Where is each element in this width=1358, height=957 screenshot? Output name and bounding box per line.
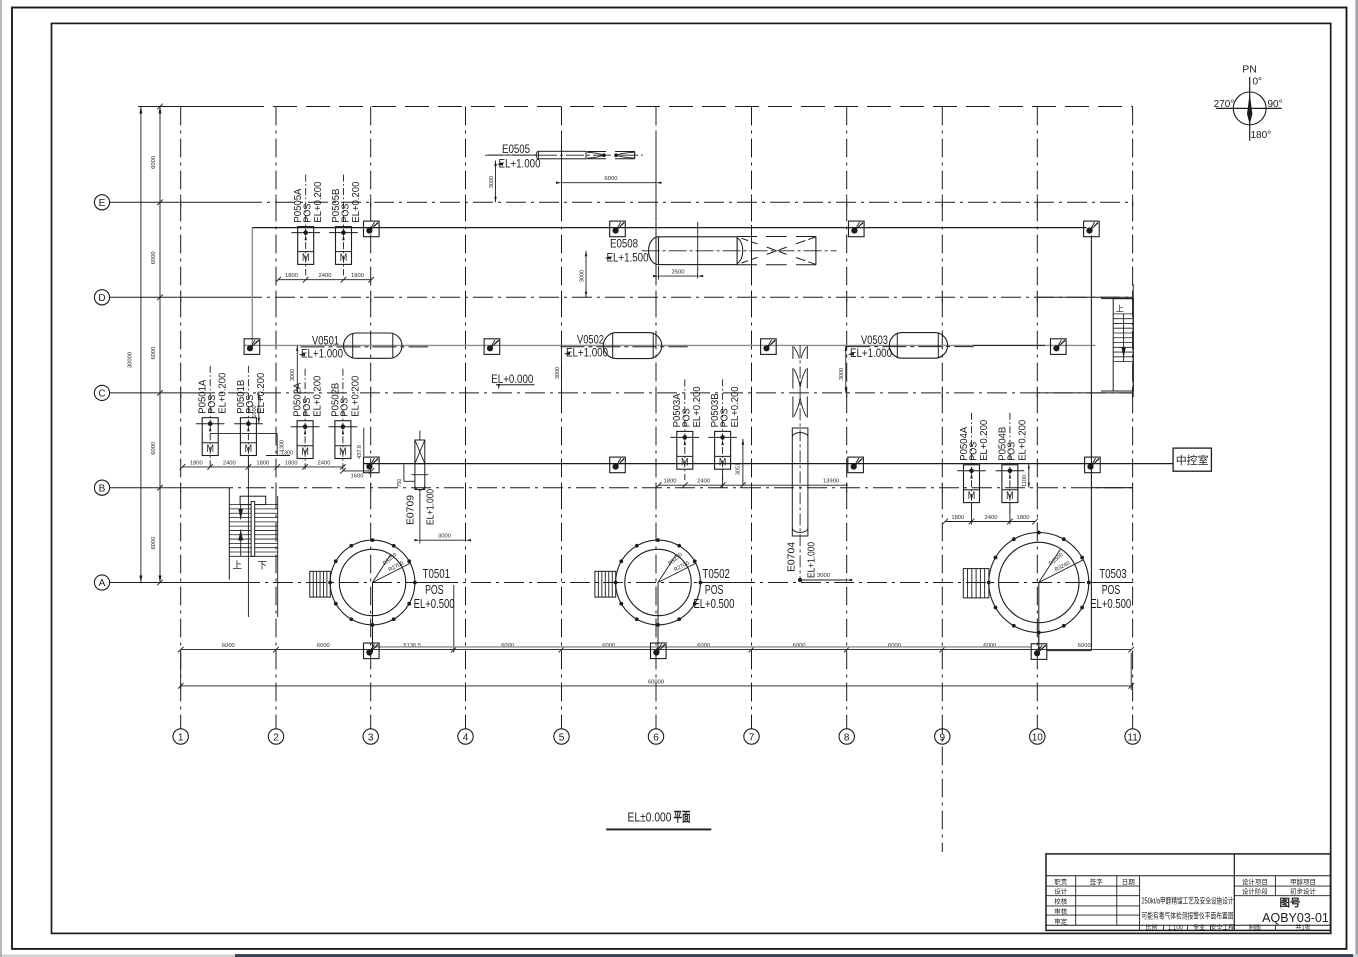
- svg-text:M: M: [339, 446, 347, 458]
- row bubble C: [94, 385, 109, 400]
- svg-text:POS: POS: [425, 583, 444, 597]
- svg-text:EL+0.200: EL+0.200: [217, 373, 229, 414]
- svg-text:11: 11: [1127, 732, 1138, 743]
- pump P0501A: [196, 366, 229, 467]
- svg-text:6000: 6000: [222, 643, 235, 649]
- svg-text:M: M: [206, 443, 214, 455]
- pump P0503B: [708, 379, 741, 480]
- title block: [1046, 854, 1331, 931]
- vessel drop dimension 3000 at V0502: [555, 345, 562, 393]
- gas detector on upper rack x=617: [610, 221, 626, 237]
- svg-text:EL+0.200: EL+0.200: [729, 386, 741, 427]
- svg-text:10: 10: [1032, 732, 1044, 743]
- row B wall segment right: [1091, 487, 1133, 489]
- axis bubble 7: [744, 729, 759, 744]
- T0503 centre line: [1038, 583, 1040, 653]
- svg-text:0°: 0°: [1253, 77, 1263, 88]
- axis bubble 1: [173, 729, 188, 744]
- axis bubble 6: [648, 729, 663, 744]
- floor elevation marker EL+0.000: [491, 374, 534, 390]
- svg-text:1:100: 1:100: [1168, 925, 1184, 931]
- svg-text:可能有毒气体检测报警仪平面布置图: 可能有毒气体检测报警仪平面布置图: [1142, 911, 1234, 921]
- svg-text:E0709: E0709: [405, 495, 417, 525]
- pump P0501B centre line down through stairs: [247, 456, 249, 618]
- svg-text:POS: POS: [1102, 583, 1121, 597]
- axis bubble 5: [554, 729, 569, 744]
- svg-text:EL+0.200: EL+0.200: [312, 181, 324, 222]
- svg-text:V0503: V0503: [861, 335, 888, 347]
- svg-text:2400: 2400: [985, 515, 998, 521]
- svg-text:2400: 2400: [223, 460, 236, 466]
- grid row A line: [109, 582, 240, 584]
- dimension 3000 E0505 to row E: [489, 161, 497, 203]
- svg-text:6000: 6000: [151, 537, 157, 550]
- exchanger E0505: [485, 144, 643, 170]
- axis 6 solid segment at E0508: [655, 222, 657, 281]
- svg-text:EL+1.000: EL+1.000: [566, 348, 608, 360]
- pump P0503A: [671, 379, 704, 480]
- grid axis 8 line: [846, 107, 848, 729]
- dimension line pumps P0505: [275, 273, 374, 282]
- svg-text:1800: 1800: [285, 273, 298, 279]
- pump P0505A: [291, 175, 324, 276]
- svg-text:3000: 3000: [839, 368, 845, 380]
- svg-text:EL+1.000: EL+1.000: [424, 489, 436, 525]
- left dimension chain inner (6000 steps): [151, 104, 163, 586]
- svg-text:750: 750: [397, 479, 403, 488]
- svg-text:3: 3: [368, 732, 374, 743]
- tank T0503: [987, 531, 1131, 653]
- grid axis 2 line: [275, 107, 277, 729]
- dimension 750 E0709: [397, 465, 415, 488]
- svg-text:90°: 90°: [1268, 99, 1283, 110]
- svg-text:EL+0.500: EL+0.500: [414, 597, 455, 611]
- svg-text:270°: 270°: [1214, 99, 1235, 110]
- gas detector on lower rack x=371: [364, 457, 380, 473]
- svg-text:T0503: T0503: [1099, 567, 1127, 581]
- dimension 3000 E0704 to axis8: [798, 573, 852, 582]
- svg-text:M: M: [681, 457, 689, 469]
- svg-text:3000: 3000: [579, 270, 585, 282]
- saddle line E0508: [697, 222, 699, 279]
- svg-text:2400: 2400: [697, 479, 710, 485]
- dimension line pumps P0504: [942, 502, 1038, 524]
- bottom dimension line total 60000: [178, 653, 1134, 690]
- svg-text:设计项目: 设计项目: [1242, 877, 1268, 886]
- window edge shading left: [0, 0, 2, 957]
- window edge shading bottom track: [0, 954, 1358, 957]
- svg-text:30000: 30000: [128, 352, 134, 368]
- grid axis 4 line: [465, 107, 467, 729]
- dimension 2500 E0508: [653, 266, 703, 280]
- svg-text:审定: 审定: [1054, 916, 1068, 925]
- svg-text:EL+0.200: EL+0.200: [350, 181, 362, 222]
- svg-text:EL+0.500: EL+0.500: [1090, 597, 1131, 611]
- axis bubble 4: [458, 729, 473, 744]
- axis bubble 11: [1125, 729, 1140, 744]
- T0502 centre line: [657, 583, 659, 653]
- svg-text:EL+1.000: EL+1.000: [850, 348, 892, 360]
- svg-text:6000: 6000: [1078, 643, 1091, 649]
- window edge shading right: [1355, 0, 1358, 957]
- svg-text:M: M: [302, 252, 310, 264]
- svg-text:180°: 180°: [1251, 130, 1272, 141]
- tank access ladder: [595, 571, 616, 597]
- extension line for 5136.5: [453, 585, 455, 653]
- svg-text:下: 下: [258, 561, 268, 572]
- svg-text:校核: 校核: [1054, 897, 1068, 906]
- svg-text:1800: 1800: [351, 273, 364, 279]
- dimension 1100 P0504: [1022, 464, 1030, 488]
- svg-text:初步设计: 初步设计: [1290, 887, 1317, 896]
- row A solid segment at T0502 label: [700, 582, 745, 584]
- svg-text:EL+0.200: EL+0.200: [349, 376, 361, 417]
- svg-text:1: 1: [178, 732, 184, 743]
- svg-text:1800: 1800: [285, 460, 298, 466]
- pump P0504B: [996, 413, 1029, 514]
- vessel drop dimension 3000 at V0501: [290, 345, 298, 393]
- dimension 3000 E0709 to axis4: [414, 495, 471, 544]
- signal cable rack line (gray) mid level: [244, 344, 1095, 346]
- svg-text:8: 8: [844, 732, 850, 743]
- svg-text:设计: 设计: [1054, 887, 1068, 896]
- svg-text:职责: 职责: [1054, 877, 1068, 886]
- building outline top (dashed): [138, 106, 240, 108]
- pump P0505B: [329, 175, 362, 276]
- svg-text:3000: 3000: [555, 367, 561, 379]
- offset step line -1300: [210, 434, 293, 457]
- dimension line pumps P0503: [656, 479, 848, 488]
- svg-text:3000: 3000: [290, 369, 296, 381]
- svg-text:3000: 3000: [489, 176, 495, 188]
- svg-text:平面: 平面: [674, 810, 691, 825]
- svg-text:M: M: [245, 443, 253, 455]
- svg-text:D: D: [98, 293, 105, 304]
- svg-text:AQBY03-01: AQBY03-01: [1262, 911, 1329, 925]
- row bubble B: [94, 480, 109, 495]
- svg-text:T0501: T0501: [423, 567, 451, 581]
- svg-text:中控室: 中控室: [1176, 453, 1209, 467]
- svg-text:日期: 日期: [1122, 878, 1136, 886]
- svg-text:M: M: [301, 446, 309, 458]
- svg-text:5: 5: [559, 732, 565, 743]
- gas detector on vessel line x=491: [484, 339, 500, 355]
- grid axis 9 line: [941, 107, 943, 853]
- tank T0501: [328, 538, 454, 652]
- control room box 中控室: [1173, 448, 1211, 471]
- gas detector on upper rack x=371: [364, 221, 380, 237]
- dimension 6000 axis5-axis6: [556, 176, 662, 188]
- svg-text:M: M: [340, 252, 348, 264]
- svg-text:1800: 1800: [951, 515, 964, 521]
- svg-text:EL+0.500: EL+0.500: [693, 597, 734, 611]
- bottom dimension line (bay dims): [178, 585, 1134, 653]
- svg-text:5136.5: 5136.5: [403, 643, 421, 649]
- pump P0504A: [957, 413, 990, 514]
- svg-text:E: E: [99, 198, 106, 209]
- pump P0501B: [234, 366, 267, 467]
- exchanger E0704: [786, 345, 818, 580]
- svg-text:PN: PN: [1242, 64, 1257, 76]
- north arrow PN compass: [1214, 64, 1283, 142]
- svg-text:EL+1.500: EL+1.500: [607, 252, 649, 264]
- axis 7 solid segment at E0508: [751, 225, 753, 280]
- svg-text:T0502: T0502: [702, 567, 730, 581]
- svg-text:EL+1.000: EL+1.000: [301, 349, 343, 361]
- gas detector on lower rack x=1092: [1085, 457, 1101, 473]
- svg-text:9: 9: [940, 732, 946, 743]
- svg-text:6000: 6000: [697, 643, 710, 649]
- dimension 3000 E0508 to row D: [579, 251, 587, 297]
- svg-text:6000: 6000: [605, 176, 618, 182]
- svg-text:上: 上: [233, 561, 243, 572]
- dimension line pumps P0501/P0502: [180, 460, 346, 469]
- svg-text:V0502: V0502: [577, 335, 604, 347]
- grid axis 11 line: [1132, 107, 1134, 729]
- vessel drop dimension 3000 at V0503: [839, 345, 847, 393]
- gas detector on lower rack x=617: [610, 457, 626, 473]
- tank T0502: [614, 538, 735, 652]
- svg-text:6000: 6000: [317, 643, 330, 649]
- svg-text:7: 7: [749, 732, 755, 743]
- svg-text:2: 2: [273, 732, 279, 743]
- pump P0502A: [291, 369, 324, 470]
- pipe rack line upper: [252, 227, 1086, 229]
- grid row E line: [109, 201, 242, 203]
- svg-text:安全工程: 安全工程: [1210, 923, 1234, 931]
- svg-text:E0508: E0508: [610, 238, 638, 250]
- window edge scrollbar thumb bottom: [235, 954, 1353, 957]
- svg-text:EL±0.000: EL±0.000: [628, 810, 672, 825]
- svg-text:M: M: [719, 457, 727, 469]
- dimension 3051 P0503B: [723, 439, 745, 488]
- svg-text:1600: 1600: [351, 473, 364, 479]
- row D wall segment right: [1037, 296, 1133, 298]
- grid row D line: [109, 296, 242, 298]
- svg-text:POS: POS: [705, 583, 724, 597]
- svg-text:C: C: [98, 389, 105, 400]
- svg-text:4: 4: [463, 732, 469, 743]
- bottom connector to dimension line: [1047, 650, 1092, 652]
- svg-text:6000: 6000: [151, 442, 157, 455]
- svg-text:E0704: E0704: [786, 542, 798, 572]
- svg-text:专业: 专业: [1193, 923, 1205, 931]
- T0501 centre line: [372, 583, 374, 653]
- svg-text:EL+0.200: EL+0.200: [691, 386, 703, 427]
- dimension 1900 P0501B: [252, 393, 260, 423]
- signal cable bottom run (gray): [372, 646, 1032, 648]
- grid axis 5 line: [561, 107, 563, 729]
- axis bubble 9: [935, 729, 950, 744]
- grid row B line: [109, 487, 213, 489]
- grid axis 1 line: [180, 107, 182, 729]
- row A solid segment at T0501 label: [415, 582, 458, 584]
- tank access ladder: [963, 569, 989, 598]
- svg-text:6: 6: [653, 732, 659, 743]
- svg-text:EL+1.000: EL+1.000: [805, 542, 817, 578]
- svg-text:A: A: [99, 578, 106, 589]
- row bubble D: [94, 290, 109, 305]
- svg-text:EL+0.200: EL+0.200: [1016, 420, 1028, 461]
- row C wall segment right: [1037, 392, 1133, 394]
- pump P0502B: [329, 369, 362, 470]
- svg-text:3000: 3000: [817, 573, 830, 579]
- signal cable riser (gray): [251, 228, 253, 346]
- tank access ladder: [310, 571, 331, 597]
- svg-text:1800: 1800: [1017, 515, 1030, 521]
- vessel V0503: [846, 333, 973, 361]
- svg-text:1100: 1100: [1022, 475, 1028, 487]
- signal drop line right: [1090, 235, 1092, 650]
- axis bubble 8: [839, 729, 854, 744]
- svg-text:6000: 6000: [602, 643, 615, 649]
- svg-text:6000: 6000: [151, 156, 157, 169]
- dimension 1600 to detector: [340, 468, 374, 479]
- svg-text:437.8: 437.8: [357, 445, 363, 459]
- svg-text:1800: 1800: [664, 479, 677, 485]
- svg-text:制图: 制图: [1249, 923, 1261, 931]
- vessel V0502: [560, 333, 687, 360]
- svg-text:图号: 图号: [1280, 897, 1301, 909]
- svg-text:2500: 2500: [672, 270, 685, 276]
- svg-text:6000: 6000: [983, 643, 996, 649]
- pipe rack line lower to control room: [364, 463, 1174, 465]
- exchanger E0709: [405, 431, 437, 526]
- svg-text:250kt/a甲醇精馏工艺及安全设施设计: 250kt/a甲醇精馏工艺及安全设施设计: [1142, 896, 1234, 906]
- svg-text:上: 上: [1116, 305, 1124, 314]
- grid axis 3 line: [370, 107, 372, 729]
- gas detector on lower rack x=855: [848, 457, 864, 473]
- svg-text:2400: 2400: [318, 460, 331, 466]
- svg-text:6000: 6000: [151, 251, 157, 264]
- gas detector on vessel line x=768: [761, 339, 777, 355]
- row bubble E: [94, 195, 109, 210]
- intersection ticks: [181, 198, 1133, 492]
- svg-text:甲醇项目: 甲醇项目: [1290, 877, 1316, 886]
- exchanger E0508: [605, 237, 837, 265]
- svg-text:6000: 6000: [501, 643, 514, 649]
- svg-text:M: M: [968, 490, 976, 502]
- svg-text:3000: 3000: [438, 533, 451, 539]
- svg-text:13900: 13900: [823, 479, 839, 485]
- svg-text:3051: 3051: [736, 463, 742, 475]
- staircase at axis 11: [1101, 284, 1133, 397]
- axis bubble 10: [1030, 729, 1045, 744]
- svg-text:共1张: 共1张: [1295, 923, 1310, 931]
- gas detector at tank T0501: [364, 643, 380, 659]
- grid axis 6 line: [655, 107, 657, 729]
- svg-text:EL+1.000: EL+1.000: [499, 158, 541, 170]
- svg-text:V0501: V0501: [312, 336, 339, 348]
- caption EL+0.000 plan: [606, 810, 711, 830]
- svg-text:审核: 审核: [1054, 907, 1068, 916]
- svg-text:设计阶段: 设计阶段: [1242, 887, 1269, 896]
- extension line axis 5 top: [561, 131, 563, 202]
- grid axis 7 line: [751, 107, 753, 729]
- svg-text:签字: 签字: [1090, 877, 1104, 886]
- gas detector at tank T0502: [651, 643, 667, 659]
- axis bubble 3: [363, 729, 378, 744]
- svg-text:1800: 1800: [256, 460, 269, 466]
- svg-text:6000: 6000: [888, 643, 901, 649]
- svg-text:-1300: -1300: [279, 450, 293, 456]
- dimension 437.8: [357, 428, 364, 459]
- svg-text:6000: 6000: [151, 347, 157, 360]
- staircase at axis 2: [229, 488, 277, 617]
- left dimension chain outer (30000): [128, 107, 143, 583]
- svg-text:6000: 6000: [793, 643, 806, 649]
- svg-text:1900: 1900: [252, 405, 258, 417]
- grid axis 10 line: [1036, 107, 1038, 729]
- svg-text:比例: 比例: [1145, 923, 1157, 931]
- svg-text:60000: 60000: [648, 679, 664, 685]
- svg-text:1800: 1800: [190, 460, 203, 466]
- svg-text:EL+0.200: EL+0.200: [312, 376, 324, 417]
- row bubble A: [94, 575, 109, 590]
- process line V0503 east: [973, 344, 1045, 346]
- grid row C line: [109, 392, 195, 394]
- gas detector at tank T0503: [1031, 644, 1047, 660]
- gas detector on vessel line x=251: [244, 339, 260, 355]
- gas detector on upper rack x=856: [849, 221, 865, 237]
- gas detector on vessel line x=1058: [1051, 339, 1067, 355]
- svg-text:B: B: [99, 483, 106, 494]
- svg-text:2400: 2400: [319, 273, 332, 279]
- extension line axis 6 top: [655, 131, 657, 202]
- svg-text:E0505: E0505: [502, 144, 530, 156]
- svg-text:EL+0.200: EL+0.200: [978, 420, 990, 461]
- gas detector on upper rack x=1091: [1084, 221, 1100, 237]
- dimension 6000 T0503 to axis 11: [1038, 633, 1040, 654]
- row A solid segment at T0503 label: [1089, 582, 1133, 584]
- vessel V0501: [299, 333, 429, 361]
- svg-text:M: M: [1006, 490, 1014, 502]
- axis bubble 2: [268, 729, 283, 744]
